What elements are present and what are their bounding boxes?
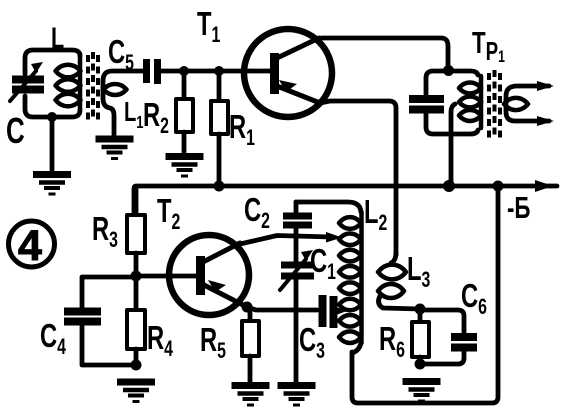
svg-text:L: L [51,20,64,54]
wire base node to R4 [134,276,139,310]
transistor T2 [169,235,249,315]
inductor L3 [378,252,420,309]
wire tank to ground [50,117,55,170]
wire box right side [352,186,498,403]
wire T1 emitter to L3 [320,101,396,255]
node R4 bottom [131,360,142,371]
figure number 4 [9,221,55,267]
wire C4 branch [82,277,136,307]
node R1 top [214,66,224,76]
ground (L1) [96,139,134,159]
tank circuit loop top/bottom [25,50,80,117]
node R6 bottom [415,359,426,370]
node bus Tp1 [443,180,455,192]
node T2 base [131,271,142,282]
wire C5 to T1 base [161,69,271,74]
wire emitter to C3 [247,307,317,310]
ground (tank) [33,175,71,195]
node L3/R6 [415,304,426,315]
core dashes (L to L1) [88,52,98,122]
node R2 top [179,66,189,76]
ground (R2) [166,157,204,177]
ground (R5) [232,386,270,406]
node bus box corner [493,181,504,192]
node T2 emitter [242,302,253,313]
wire C2 to C1 [294,228,299,265]
wire R1 to bus [217,134,222,186]
capacitor C4 plates [64,312,101,322]
transistor T1 [244,29,332,117]
wire C1 to ground [294,276,299,383]
capacitor C (variable, tank) [10,62,44,101]
node tank bottom [47,112,57,122]
svg-text:4: 4 [18,222,42,270]
wire T2 collector tap to L2 [240,232,342,244]
transformer Tp1 secondary [504,81,554,126]
wire R2 to ground [182,132,187,152]
transformer Tp1 primary frame [426,71,478,134]
svg-text:-Б: -Б [507,190,530,224]
capacitor C6 plates [451,337,477,348]
resistor R6 [412,309,429,364]
ground (C1) [278,386,316,406]
transformer Tp1 primary coil [459,76,481,128]
wire R3 to base node [134,253,139,276]
resistor R2 [176,99,193,132]
resistor R5 [242,321,259,356]
wire R4 to ground [134,349,139,365]
wire C4 to R4 bottom [82,325,135,365]
svg-text:C: C [6,111,25,151]
resistor R1 [211,101,228,134]
wire T1 collector to Tp1 [316,38,448,70]
capacitor C1 (variable) [280,250,314,290]
inductor L (tank coil) [56,54,81,110]
capacitor C6 branch [420,310,464,364]
wire emitter to R5 [247,307,250,321]
node bus R1 [214,181,225,192]
wire Tp1 tap to bus [451,104,455,186]
core dashes (Tp1) [489,70,500,140]
wire bus to R3 [134,189,139,215]
inductor L2 [296,202,362,353]
capacitor C5 [147,59,158,84]
capacitor C2 [283,202,312,225]
ground (R6) [403,382,441,402]
inductor L1 [103,71,143,135]
ground (R4) [117,382,155,402]
node Tp1 top [443,65,454,76]
bus wire -B [134,186,557,215]
resistor R4 [127,310,145,349]
wire to R2 [182,71,187,99]
capacitor C3 [323,295,334,328]
wire C3 to L2 tap [333,306,347,316]
resistor R3 [127,215,145,253]
wire base node to T2 [136,274,198,279]
wire to R1 [217,71,222,101]
bus arrow [535,180,553,192]
wire R5 to ground [248,356,253,383]
capacitor (across Tp1 primary) [409,99,444,110]
